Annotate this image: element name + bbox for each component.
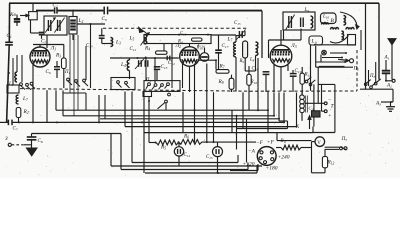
svg-text:L8: L8 (249, 58, 255, 63)
svg-text:C13: C13 (86, 44, 93, 49)
svg-text:C15: C15 (234, 21, 241, 26)
svg-text:R9: R9 (239, 59, 245, 64)
svg-text:Кв: Кв (9, 12, 17, 18)
svg-text:−F: −F (256, 140, 264, 146)
svg-text:L10: L10 (322, 15, 329, 20)
svg-text:+120: +120 (243, 162, 255, 168)
svg-text:C15: C15 (206, 155, 213, 160)
svg-text:C14: C14 (184, 153, 191, 158)
svg-text:П1: П1 (64, 70, 71, 75)
svg-text:+240: +240 (278, 154, 290, 161)
svg-text:З: З (5, 136, 8, 142)
svg-text:L1: L1 (8, 82, 14, 87)
svg-text:R11: R11 (280, 139, 287, 144)
svg-text:+F: +F (267, 140, 275, 146)
svg-text:+: + (328, 113, 331, 119)
svg-text:П1: П1 (145, 78, 151, 83)
svg-text:−: − (328, 97, 331, 103)
svg-text:V: V (317, 141, 321, 146)
svg-text:−А: −А (248, 149, 256, 155)
svg-text:П3: П3 (369, 74, 376, 79)
svg-text:C14: C14 (198, 44, 205, 49)
svg-text:+180: +180 (266, 166, 278, 172)
